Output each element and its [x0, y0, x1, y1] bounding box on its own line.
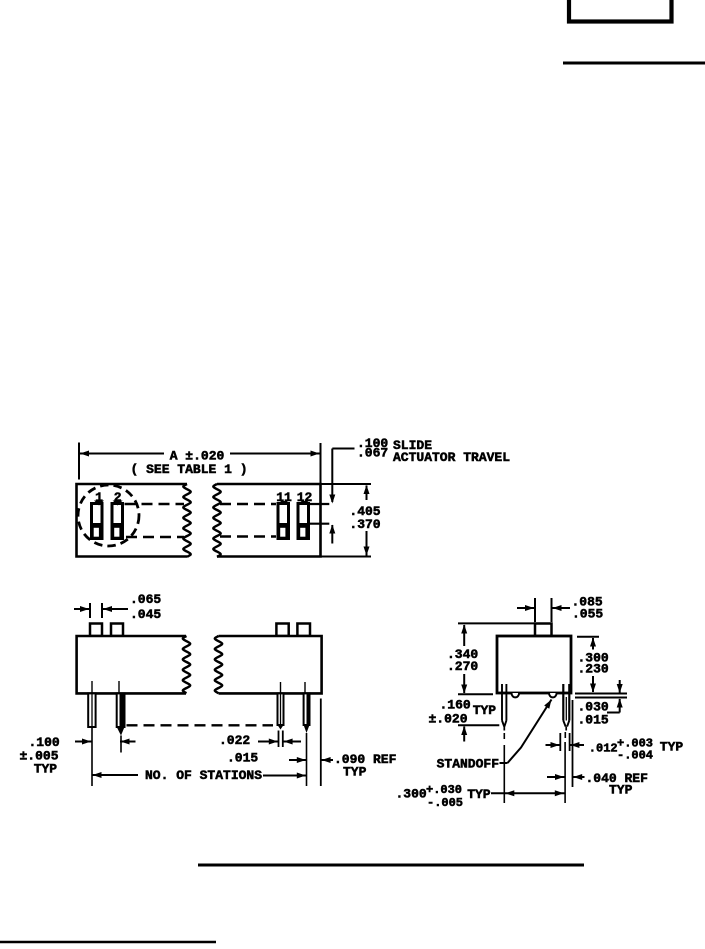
pin 12 (front view): [304, 682, 310, 786]
svg-text:-.004: -.004: [617, 749, 653, 763]
switch position 12 (top view): [298, 504, 309, 539]
switch position 2 (top view): [112, 504, 123, 539]
side body right edge extension: [572, 700, 574, 787]
svg-text:TYP: TYP: [343, 765, 367, 780]
footer left rule line: [0, 941, 216, 944]
seating plane extension line: [458, 693, 493, 695]
detail circle (dashed) around positions 1 and 2: [78, 485, 139, 546]
svg-text:.022: .022: [219, 733, 250, 748]
front view actuator tab 12: [297, 624, 310, 637]
svg-text:TYP: TYP: [473, 703, 497, 718]
footer rule line: [198, 864, 584, 867]
side view actuator tab: [535, 624, 552, 637]
dimension A +/-.020 extension line left: [78, 443, 80, 480]
dimension .065/.045 extension lines: [89, 603, 91, 618]
dimension .030/.015: [619, 680, 621, 693]
pin tip extension line: [458, 724, 499, 726]
front view body left section: [77, 636, 186, 693]
side view body: [497, 636, 571, 693]
tab top extension line: [458, 622, 535, 624]
dimension .040 REF TYP arrows: [547, 776, 565, 778]
pin 1 (front view): [88, 681, 95, 786]
svg-text:.055: .055: [572, 607, 603, 622]
dimension .300 bottom arrows: [491, 792, 565, 794]
left pin centerline extension: [503, 733, 505, 739]
svg-text:.045: .045: [130, 607, 161, 622]
svg-text:.067: .067: [357, 446, 388, 461]
dimension .012 +.003/-.004 TYP arrows: [546, 744, 561, 746]
body edge extension line (front view right): [320, 699, 322, 787]
top view right break (wavy) edge: [213, 484, 221, 557]
hidden slot line upper right: [220, 503, 276, 506]
svg-text:TYP: TYP: [660, 740, 684, 755]
front view actuator tab 2: [111, 624, 123, 637]
dimension .085/.055 arrows: [517, 607, 535, 609]
front view actuator tab 11: [276, 624, 288, 637]
svg-text:TYP: TYP: [609, 783, 633, 798]
pin 2 (front view): [117, 681, 125, 753]
svg-text:TYP: TYP: [467, 787, 491, 802]
side view right pin: [563, 684, 569, 731]
dimension .300/.230 extension line top: [577, 636, 599, 638]
dimension .022 arrows: [258, 741, 278, 743]
header rule line: [563, 62, 705, 65]
dimension A +/-.020 line and arrows: [79, 453, 164, 455]
right pin edge extension lines: [559, 733, 561, 751]
standoff bump left: [512, 693, 520, 697]
side view left pin: [502, 684, 506, 731]
dimension .405/.370 extension lines: [321, 483, 372, 485]
slide travel extension lines from switch 12: [309, 503, 329, 505]
svg-text:.012: .012: [589, 742, 618, 756]
front view left break (wavy) edge: [183, 636, 191, 693]
svg-text:STANDOFF: STANDOFF: [437, 757, 500, 772]
svg-text:ACTUATOR TRAVEL: ACTUATOR TRAVEL: [393, 450, 510, 465]
body bottom extension line: [575, 693, 627, 695]
hidden slot line lower right: [220, 535, 276, 538]
dimension .340/.270: [461, 625, 467, 634]
hidden slot line lower left: [126, 536, 184, 539]
dimension .405/.370 arrows and line: [364, 485, 370, 494]
svg-text:NO. OF STATIONS: NO. OF STATIONS: [145, 768, 262, 783]
dimension A +/-.020 extension line right: [320, 443, 322, 484]
switch position 11 (top view): [278, 504, 289, 539]
standoff bump right: [549, 693, 557, 697]
svg-text:.230: .230: [578, 662, 609, 677]
header revision box: [569, 0, 672, 22]
front view right break (wavy) edge: [215, 636, 223, 693]
top view left break (wavy) edge: [183, 484, 191, 557]
svg-text:.015: .015: [227, 751, 258, 766]
front view actuator tab 1: [90, 624, 102, 637]
svg-text:+.030: +.030: [426, 783, 462, 797]
svg-text:.370: .370: [349, 517, 380, 532]
dimension .065/.045 arrows: [74, 608, 90, 610]
svg-text:.160: .160: [440, 698, 471, 713]
top view body right section: [217, 484, 321, 557]
svg-text:TYP: TYP: [34, 762, 58, 777]
svg-text:.300: .300: [396, 787, 427, 802]
front view body right section: [219, 636, 322, 693]
switch position 1 (top view): [92, 504, 103, 539]
dimension .022 extension lines below pin 11: [278, 731, 280, 748]
pin 11 (front view): [278, 682, 284, 730]
dimension .300/.230: [590, 638, 596, 647]
dimension .090 REF TYP arrows: [289, 759, 306, 761]
svg-text:( SEE TABLE 1 ): ( SEE TABLE 1 ): [130, 462, 247, 477]
svg-text:.015: .015: [578, 713, 609, 728]
svg-text:.270: .270: [447, 659, 478, 674]
slide travel dimension leader: [332, 448, 354, 450]
svg-text:-.005: -.005: [427, 796, 463, 810]
dimension .100 arrows: [75, 741, 92, 743]
dimension .085/.055 extension lines: [534, 598, 536, 622]
standoff bottom extension line: [575, 697, 627, 699]
hidden slot line upper left: [125, 503, 185, 506]
phantom line between sections (front view): [127, 724, 274, 726]
dimension NO. OF STATIONS: [93, 772, 102, 778]
top view body left section: [77, 484, 188, 557]
svg-text:.065: .065: [130, 592, 161, 607]
dimension .160 bottom arrow: [461, 726, 467, 735]
right pin centerline extension: [564, 732, 566, 738]
